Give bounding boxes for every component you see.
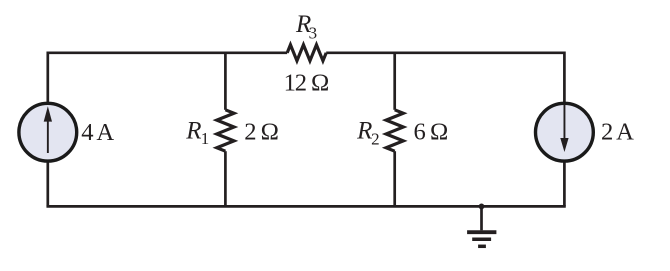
svg-text:12 Ω: 12 Ω <box>284 69 329 96</box>
wire R2 bottom lead <box>393 151 396 206</box>
wire bottom <box>48 205 565 208</box>
wire R2 top lead <box>393 53 396 110</box>
svg-text:2 A: 2 A <box>601 118 634 145</box>
svg-text:R: R <box>356 117 372 144</box>
wire R1 bottom lead <box>224 151 227 206</box>
wire R1 top lead <box>224 53 227 110</box>
svg-text:1: 1 <box>201 129 210 148</box>
arrow of I1 (up) <box>44 106 52 153</box>
svg-text:6 Ω: 6 Ω <box>414 118 448 145</box>
svg-text:2 Ω: 2 Ω <box>244 118 278 145</box>
node: ground junction dot <box>479 204 485 210</box>
label R3 <box>295 11 317 42</box>
wire top-right segment + right vertical <box>326 53 564 207</box>
svg-text:3: 3 <box>309 23 318 42</box>
svg-text:2: 2 <box>371 129 380 148</box>
ground <box>467 206 496 246</box>
label R2 <box>356 117 380 148</box>
current source I1 (4 A) <box>19 103 77 161</box>
svg-text:4 A: 4 A <box>81 119 114 146</box>
resistor R3 <box>287 45 326 61</box>
resistor R1 <box>217 110 234 151</box>
arrow of I2 (down) <box>560 104 568 152</box>
svg-text:R: R <box>185 117 201 144</box>
wire left vertical + top-left segment <box>48 53 287 207</box>
label R1 <box>185 117 209 148</box>
current source I2 (2 A) <box>536 103 594 161</box>
resistor R2 <box>386 110 403 151</box>
